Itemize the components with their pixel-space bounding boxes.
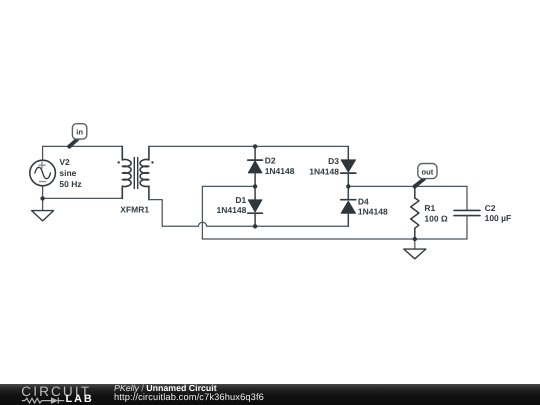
primary vertical [121, 146, 123, 198]
footer watermark bar [0, 384, 540, 405]
wire DC minus vertical [201, 186, 203, 239]
url line [114, 393, 264, 403]
svg-text:1N4148: 1N4148 [217, 205, 247, 215]
core lines [134, 158, 137, 189]
primary winding arcs [122, 160, 131, 187]
node D1 D2 mid junction [253, 184, 257, 188]
label C2 100 uF [485, 203, 512, 223]
node flag out [415, 164, 437, 187]
node D2 top junction [253, 144, 257, 148]
label V2 sine 50 Hz [59, 157, 81, 189]
label D2 1N4148 [265, 156, 295, 177]
wire node Y horizontal [348, 185, 467, 187]
wire DC minus bottom rail [202, 238, 467, 240]
svg-text:C2: C2 [485, 203, 496, 213]
svg-text:100 µF: 100 µF [485, 213, 512, 223]
svg-text:D4: D4 [358, 197, 369, 207]
label D1 1N4148 [217, 195, 247, 215]
secondary vertical [148, 146, 150, 199]
CircuitLab logo symbol row and LAB [0, 384, 100, 405]
node in junction [67, 144, 71, 148]
label D3 1N4148 [309, 156, 339, 177]
node out junction [413, 184, 417, 188]
diode D1 [248, 186, 263, 226]
logo wire after diode [58, 400, 64, 402]
wire V2 bottom stub [42, 186, 44, 199]
svg-text:sine: sine [59, 168, 76, 178]
resistor R1 [411, 186, 419, 239]
ground symbol right [404, 249, 426, 259]
svg-text:XFMR1: XFMR1 [120, 204, 149, 214]
secondary winding arcs [140, 160, 149, 187]
wire node X horizontal [202, 185, 255, 187]
svg-text:D3: D3 [328, 156, 339, 166]
label D4 1N4148 [358, 197, 388, 217]
diode D4 [341, 186, 356, 226]
svg-text:1N4148: 1N4148 [309, 167, 339, 177]
logo resistor diode squiggle [22, 398, 59, 404]
ground symbol left [32, 211, 54, 221]
node D3 D4 mid junction [346, 184, 350, 188]
phase dot primary [118, 161, 120, 163]
wire bottom rail primary side [43, 197, 123, 199]
wire V2 top stub [42, 146, 44, 160]
node R1 ground junction [413, 237, 417, 241]
wire secondary to bridge with hop [162, 222, 255, 226]
capacitor C2 [454, 186, 480, 239]
diode D2 [248, 146, 263, 186]
wire top rail primary side [43, 145, 123, 147]
logo diode triangle [52, 398, 59, 404]
transformer XFMR1 [118, 146, 154, 199]
voltage source V2 [30, 160, 56, 186]
svg-text:in: in [76, 128, 83, 137]
svg-text:D2: D2 [265, 156, 276, 166]
svg-text:1N4148: 1N4148 [358, 207, 388, 217]
wire secondary bottom path [149, 200, 162, 227]
phase dot secondary [151, 161, 153, 163]
wire bridge bottom rail [255, 225, 348, 227]
svg-text:R1: R1 [424, 203, 435, 213]
node V2 ground junction [40, 196, 44, 200]
wire ground1 stem [42, 198, 44, 210]
wire top rail secondary side [149, 145, 348, 147]
svg-text:out: out [421, 167, 433, 176]
CircuitLab logo text CIRCUIT [21, 385, 91, 399]
svg-text:D1: D1 [235, 195, 246, 205]
wire ground2 stem [414, 239, 416, 249]
svg-text:1N4148: 1N4148 [265, 166, 295, 176]
svg-text:50 Hz: 50 Hz [59, 179, 81, 189]
junction dots [40, 144, 417, 241]
logo LAB [66, 394, 94, 405]
label R1 100 Ohm [424, 203, 448, 223]
credit line [114, 384, 217, 393]
node D1 bottom junction [253, 224, 257, 228]
svg-text:100 Ω: 100 Ω [424, 214, 448, 224]
node flag in [70, 124, 87, 147]
svg-text:V2: V2 [59, 157, 70, 167]
diode D3 [341, 146, 356, 186]
